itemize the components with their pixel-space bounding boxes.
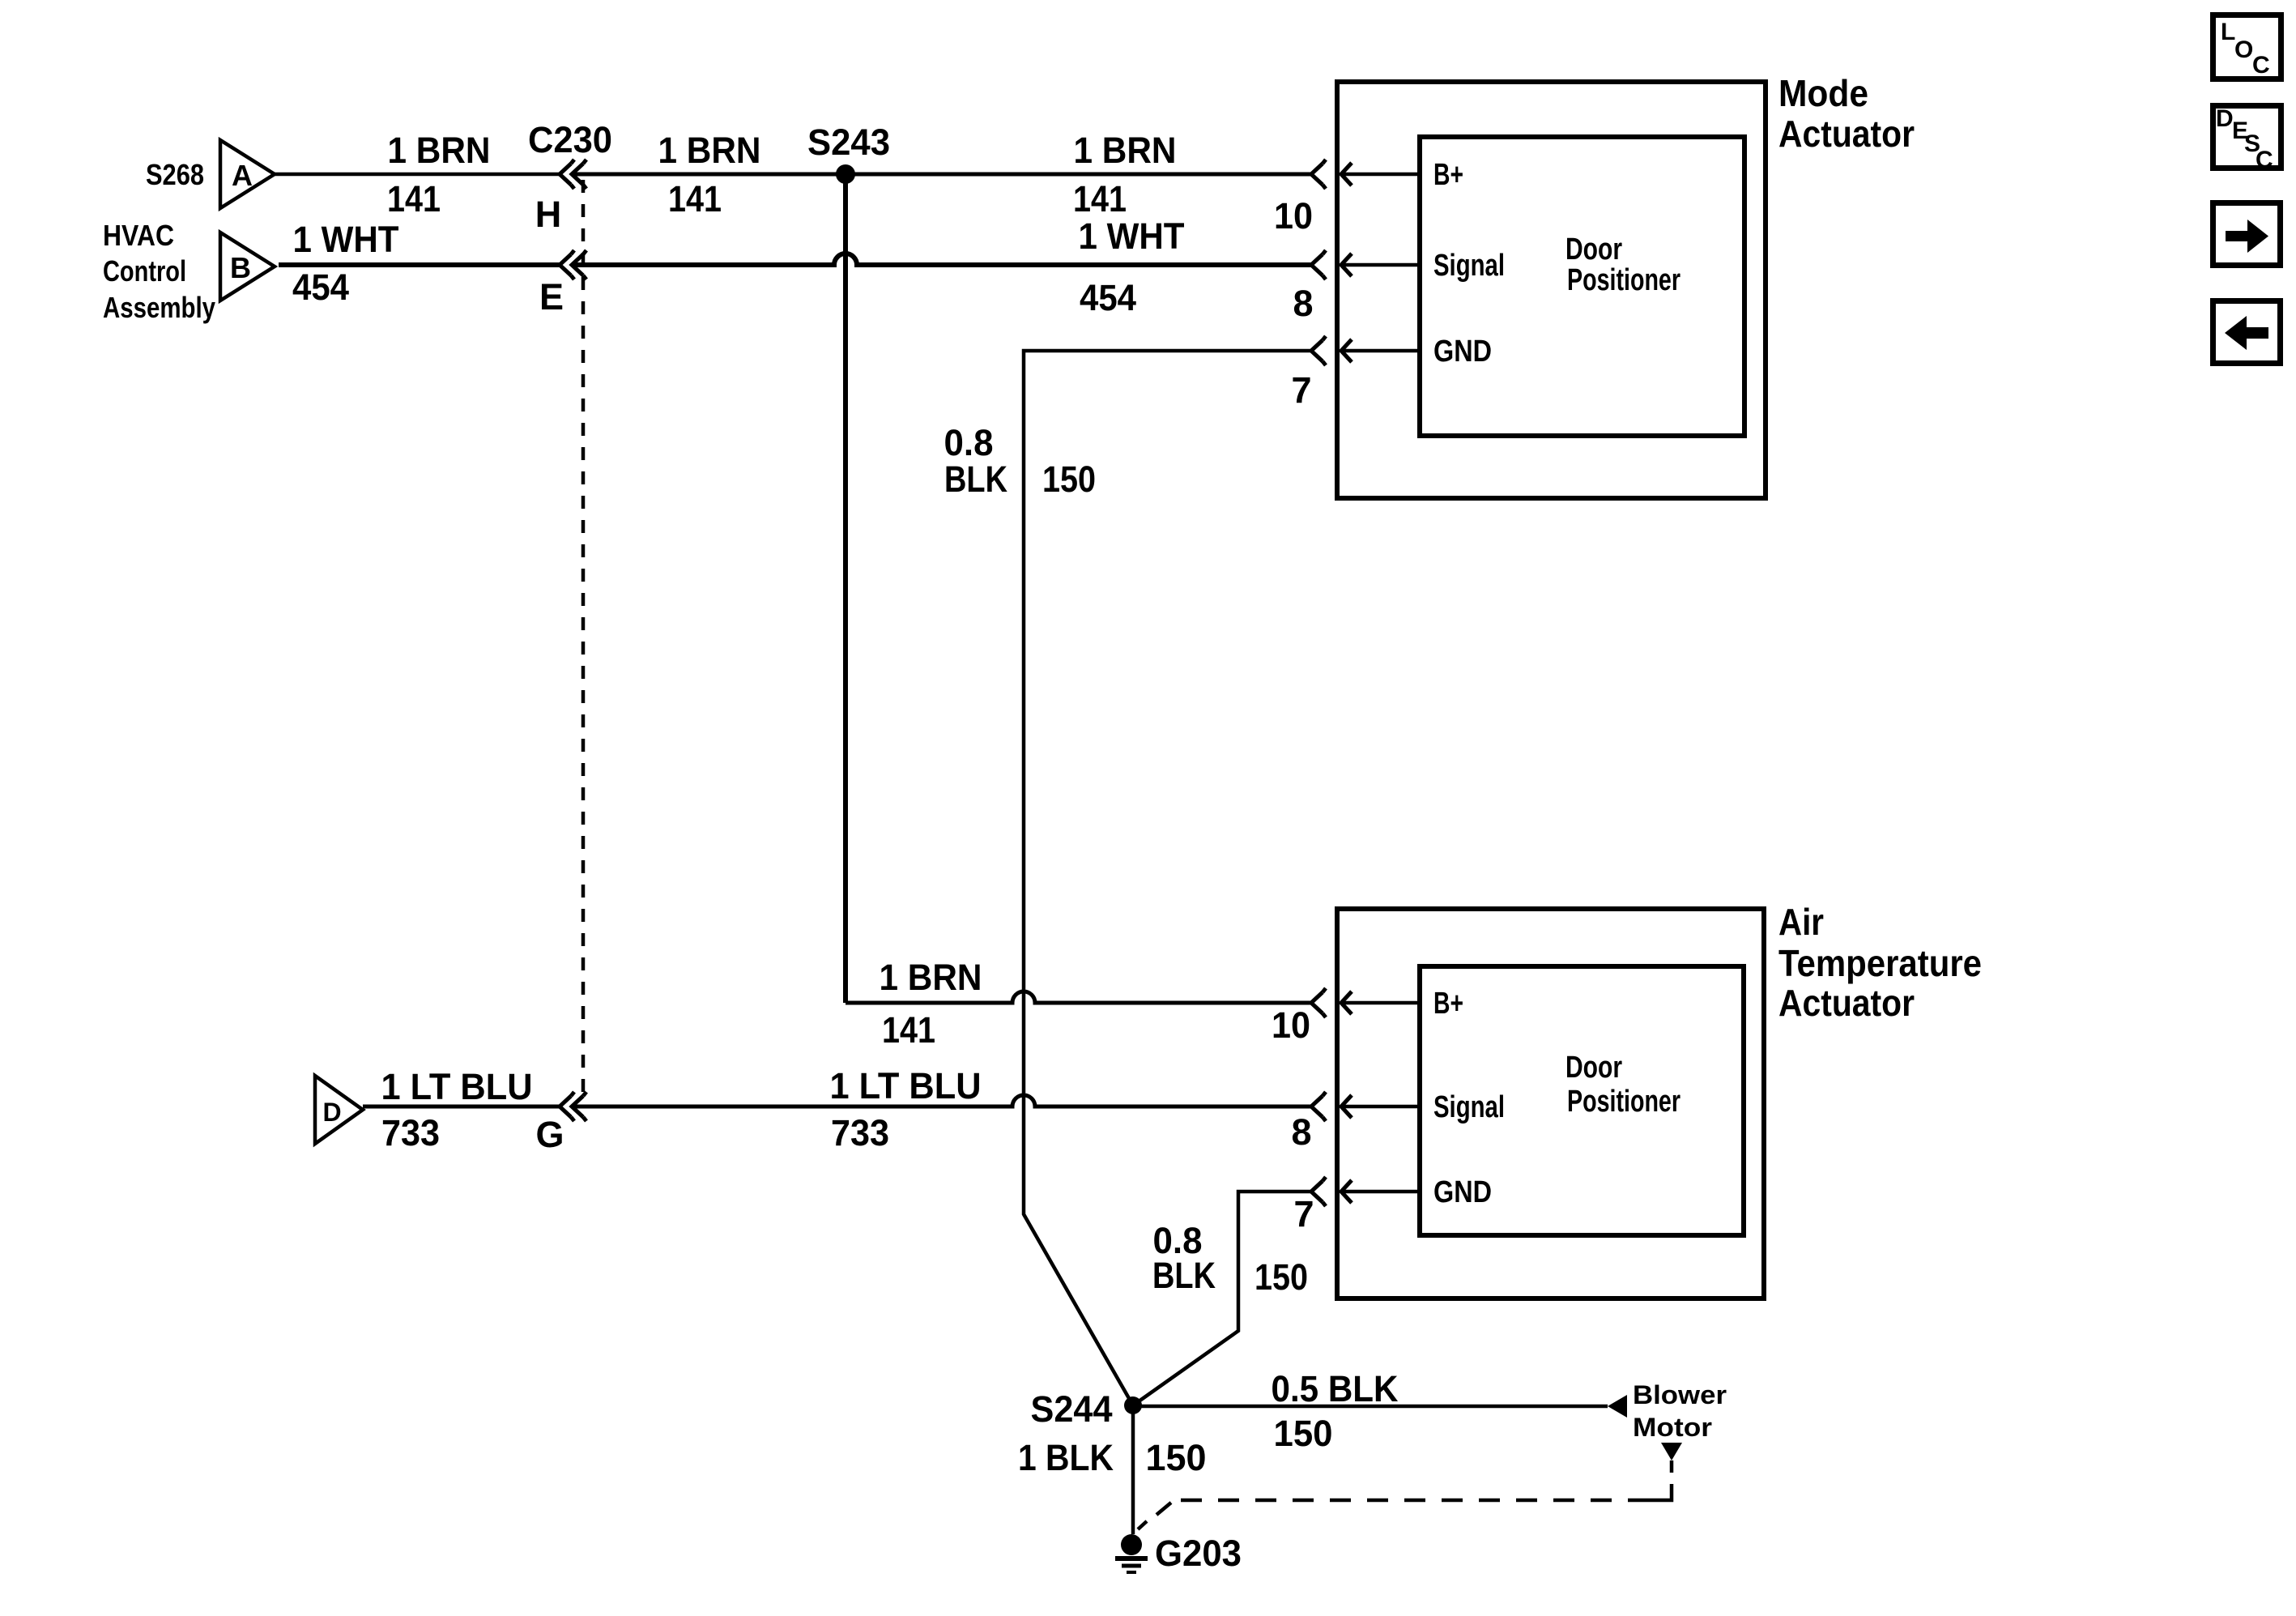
svg-text:S268: S268 <box>146 158 204 191</box>
wire 1 WHT 454 from B to C230 <box>279 262 560 267</box>
connector HVAC Control Assembly triangle B <box>220 232 275 301</box>
label Door Positioner (mode) <box>1565 232 1680 297</box>
label Blower Motor <box>1633 1380 1727 1442</box>
label Air Temperature Actuator <box>1778 901 1982 1024</box>
svg-text:Air: Air <box>1778 901 1824 943</box>
label Door Positioner (air) <box>1565 1051 1680 1119</box>
wire 1 WHT 454 from C230 to Mode Actuator pin 8 with hop over S243 branch <box>572 254 1311 265</box>
Blower Motor reference lead <box>1670 1460 1674 1473</box>
splice S243 <box>836 164 855 184</box>
LOC icon box <box>2213 15 2281 79</box>
wire 1 LT BLU 733 from D to C230 <box>363 1105 560 1109</box>
off-page arrow to Blower Motor <box>1608 1395 1627 1418</box>
svg-text:Blower: Blower <box>1633 1380 1727 1409</box>
svg-text:150: 150 <box>1146 1437 1207 1478</box>
svg-text:E: E <box>539 276 564 318</box>
svg-text:Door: Door <box>1565 1051 1622 1085</box>
svg-text:0.5 BLK: 0.5 BLK <box>1272 1368 1399 1409</box>
svg-text:141: 141 <box>387 178 441 220</box>
svg-text:Assembly: Assembly <box>103 291 215 324</box>
svg-text:Mode: Mode <box>1778 72 1868 114</box>
Air Temperature Actuator pin 7 GND arrow <box>1341 1180 1417 1203</box>
svg-text:Motor: Motor <box>1633 1413 1712 1442</box>
svg-text:8: 8 <box>1291 1111 1311 1153</box>
svg-text:0.8: 0.8 <box>944 422 994 463</box>
svg-text:454: 454 <box>1080 277 1136 318</box>
wire S243 branch down to Air Temperature Actuator pin 10 <box>843 174 848 1003</box>
svg-text:7: 7 <box>1291 369 1311 411</box>
svg-text:150: 150 <box>1254 1256 1308 1298</box>
svg-text:733: 733 <box>381 1112 440 1153</box>
svg-text:1 WHT: 1 WHT <box>293 219 399 260</box>
wire 0.8 BLK 150 from Air Temperature Actuator GND pin 7 <box>1133 1192 1312 1405</box>
label HVAC Control Assembly <box>103 219 215 324</box>
svg-text:D: D <box>2216 105 2234 132</box>
Air Temperature Actuator pin 8 Signal chevron <box>1311 1092 1326 1121</box>
svg-text:A: A <box>232 159 253 192</box>
dashed link Blower Motor to G203 <box>1138 1484 1672 1529</box>
svg-text:1 LT BLU: 1 LT BLU <box>830 1065 982 1106</box>
label Mode Actuator <box>1778 72 1915 155</box>
svg-text:HVAC: HVAC <box>103 219 174 252</box>
svg-text:C: C <box>2252 52 2270 79</box>
Mode Actuator pin 7 GND chevron <box>1311 336 1326 365</box>
svg-text:1 BRN: 1 BRN <box>388 130 491 171</box>
svg-text:Signal: Signal <box>1433 1090 1505 1124</box>
wire 1 BRN 141 from A to C230 <box>275 173 560 177</box>
svg-text:C: C <box>2256 147 2273 173</box>
svg-text:1 BRN: 1 BRN <box>880 957 982 998</box>
splice S244 <box>1124 1396 1142 1414</box>
Blower Motor reference triangle <box>1661 1443 1682 1460</box>
svg-text:Door: Door <box>1565 232 1622 266</box>
svg-text:Actuator: Actuator <box>1778 982 1915 1024</box>
svg-text:Positioner: Positioner <box>1567 263 1680 297</box>
wire 1 BRN 141 to Air Temperature Actuator pin 10 with hop <box>846 991 1312 1003</box>
svg-text:B: B <box>230 251 251 284</box>
svg-text:454: 454 <box>292 266 349 308</box>
wire 0.8 BLK 150 from Mode Actuator GND pin 7 <box>1024 351 1312 1405</box>
svg-text:GND: GND <box>1433 335 1492 369</box>
svg-text:O: O <box>2234 36 2253 63</box>
Mode Actuator pin 8 Signal arrow <box>1341 254 1417 276</box>
wire 1 BLK 150 from S244 to G203 <box>1131 1405 1135 1534</box>
svg-text:1 BLK: 1 BLK <box>1018 1437 1114 1478</box>
svg-text:BLK: BLK <box>944 458 1007 500</box>
Air Temperature Actuator outer box <box>1337 909 1764 1298</box>
connector C230 pin H chevrons <box>560 160 586 189</box>
svg-text:H: H <box>535 194 562 235</box>
svg-text:L: L <box>2221 19 2235 45</box>
wire 1 BRN 141 from C230 to Mode Actuator pin 10 <box>572 173 1311 177</box>
svg-text:141: 141 <box>882 1009 935 1051</box>
svg-text:Control: Control <box>103 254 186 288</box>
Air Temperature Actuator pin 10 B+ arrow <box>1341 991 1417 1014</box>
Air Temperature Actuator pin 7 GND chevron <box>1311 1177 1326 1206</box>
svg-text:Positioner: Positioner <box>1567 1085 1680 1119</box>
svg-text:1 WHT: 1 WHT <box>1079 215 1185 257</box>
svg-text:G203: G203 <box>1155 1533 1242 1574</box>
wire 0.5 BLK 150 from S244 to Blower Motor <box>1133 1405 1608 1409</box>
svg-text:D: D <box>322 1098 341 1127</box>
svg-text:1 LT BLU: 1 LT BLU <box>381 1066 533 1107</box>
DESC icon box <box>2213 105 2281 173</box>
svg-text:7: 7 <box>1293 1193 1314 1234</box>
wire 1 LT BLU 733 from C230 to Air Temperature Actuator pin 8 with hop <box>572 1095 1311 1106</box>
connector triangle D <box>315 1076 363 1144</box>
svg-text:GND: GND <box>1433 1175 1492 1209</box>
svg-text:150: 150 <box>1274 1413 1333 1454</box>
Mode Actuator pin 10 B+ arrow <box>1341 163 1417 185</box>
connector C230 pin E chevrons <box>560 250 586 279</box>
Door Positioner inner box (mode) <box>1420 137 1744 436</box>
Mode Actuator pin 7 GND arrow <box>1341 339 1417 362</box>
svg-text:Actuator: Actuator <box>1778 113 1915 155</box>
svg-text:Temperature: Temperature <box>1778 942 1982 984</box>
svg-text:8: 8 <box>1293 283 1313 324</box>
svg-text:1 BRN: 1 BRN <box>1074 130 1177 171</box>
Door Positioner inner box (air) <box>1420 966 1744 1235</box>
in-line connector C230 dashed line <box>581 180 586 1098</box>
svg-text:733: 733 <box>831 1112 889 1153</box>
connector C230 pin G chevrons <box>560 1092 586 1121</box>
connector S268 triangle A <box>220 140 275 208</box>
svg-text:C230: C230 <box>528 119 612 160</box>
Air Temperature Actuator pin 10 B+ chevron <box>1311 988 1326 1017</box>
svg-text:B+: B+ <box>1433 158 1463 192</box>
left-arrow icon box <box>2213 301 2281 364</box>
svg-text:141: 141 <box>668 178 722 220</box>
svg-text:10: 10 <box>1274 195 1313 237</box>
svg-text:B+: B+ <box>1433 987 1463 1021</box>
svg-text:S243: S243 <box>807 122 890 163</box>
svg-text:G: G <box>535 1114 564 1155</box>
svg-text:1 BRN: 1 BRN <box>658 130 761 171</box>
svg-text:S244: S244 <box>1031 1388 1113 1430</box>
Mode Actuator outer box <box>1337 82 1766 498</box>
Air Temperature Actuator pin 8 Signal arrow <box>1341 1095 1417 1118</box>
Mode Actuator pin 8 Signal chevron <box>1311 250 1326 279</box>
svg-text:141: 141 <box>1073 178 1127 220</box>
ground G203 <box>1115 1534 1148 1572</box>
right-arrow icon box <box>2213 203 2281 266</box>
svg-text:150: 150 <box>1042 458 1096 500</box>
Mode Actuator pin 10 B+ chevron <box>1311 160 1326 189</box>
svg-text:Signal: Signal <box>1433 249 1505 283</box>
svg-text:10: 10 <box>1272 1004 1310 1046</box>
svg-text:BLK: BLK <box>1152 1255 1216 1296</box>
